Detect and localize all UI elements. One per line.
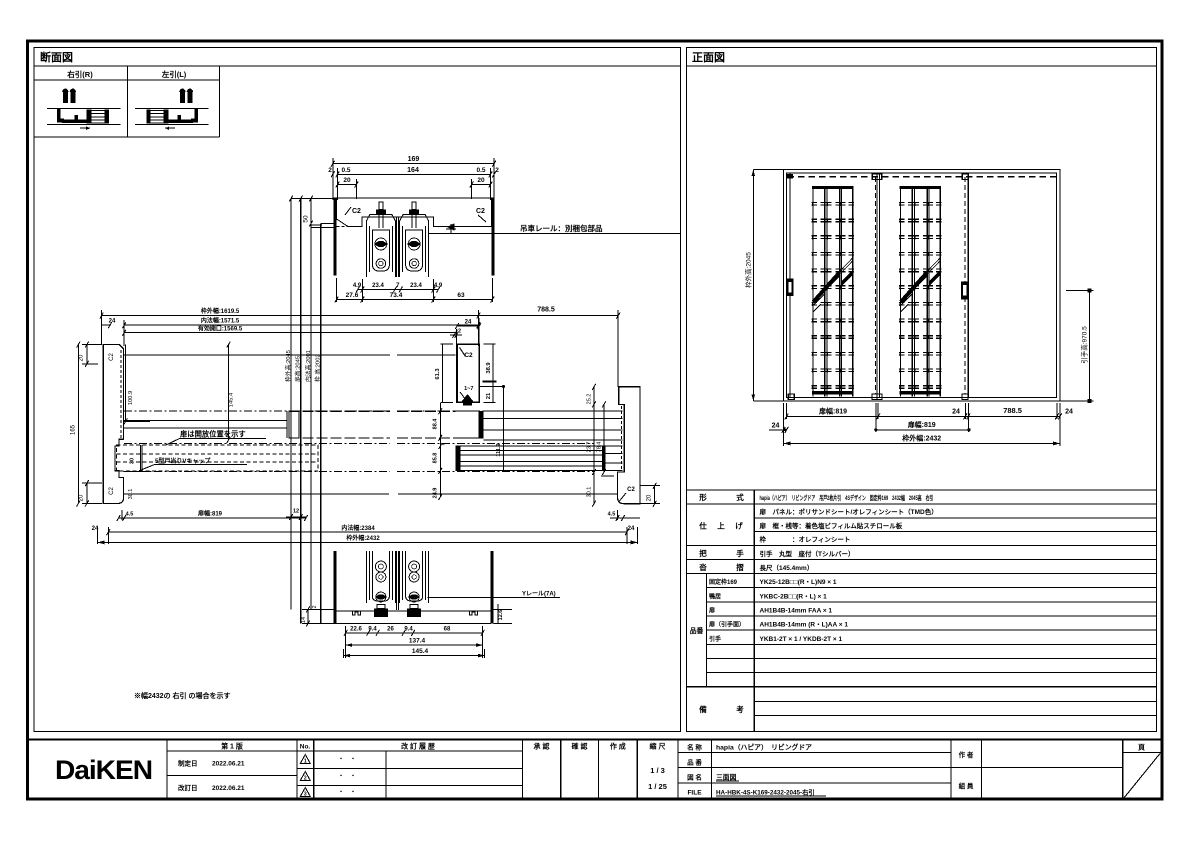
svg-text:品 番: 品 番 <box>687 758 702 767</box>
svg-text:改訂日: 改訂日 <box>178 783 198 792</box>
svg-text:考: 考 <box>736 704 744 714</box>
svg-text:24: 24 <box>1065 409 1073 416</box>
svg-text:27.6: 27.6 <box>346 292 359 299</box>
svg-text:23.4: 23.4 <box>410 283 422 289</box>
svg-text:枠外幅:2432: 枠外幅:2432 <box>346 534 380 542</box>
svg-text:20: 20 <box>79 354 85 361</box>
svg-text:げ: げ <box>735 521 743 531</box>
svg-text:承 認: 承 認 <box>534 742 550 751</box>
svg-text:作 者: 作 者 <box>959 750 974 759</box>
svg-text:788.5: 788.5 <box>1003 406 1022 415</box>
svg-text:30.1: 30.1 <box>587 487 593 498</box>
svg-text:hapia（ハピア） リビングドア: hapia（ハピア） リビングドア <box>716 743 812 752</box>
svg-text:12.6: 12.6 <box>498 610 504 621</box>
svg-text:右引(R): 右引(R) <box>66 69 93 79</box>
svg-text:左引(L): 左引(L) <box>161 69 187 79</box>
svg-text:手: 手 <box>736 548 744 558</box>
svg-text:枠 高:2002: 枠 高:2002 <box>314 354 322 382</box>
svg-text:扉幅:819: 扉幅:819 <box>197 510 223 518</box>
svg-text:0.5: 0.5 <box>341 167 350 174</box>
svg-text:沓: 沓 <box>698 562 707 572</box>
svg-text:内法幅:2384: 内法幅:2384 <box>341 524 375 532</box>
svg-text:2: 2 <box>304 776 307 782</box>
svg-text:3: 3 <box>304 792 307 798</box>
svg-text:HA-HBK-4S-K169-2432-2045-右引: HA-HBK-4S-K169-2432-2045-右引 <box>716 788 815 797</box>
svg-text:20: 20 <box>477 177 485 184</box>
svg-text:DaiKEN: DaiKEN <box>55 755 152 785</box>
svg-text:改 訂 履 歴: 改 訂 履 歴 <box>401 742 435 751</box>
svg-text:2: 2 <box>495 167 499 174</box>
svg-text:4.5: 4.5 <box>608 512 616 518</box>
svg-text:組 員: 組 員 <box>959 781 974 790</box>
svg-text:20: 20 <box>343 177 351 184</box>
svg-text:引手: 引手 <box>709 635 721 643</box>
svg-text:22.6: 22.6 <box>350 627 362 633</box>
svg-text:24: 24 <box>109 319 116 325</box>
svg-text:枠 ：オレフィンシート: 枠 ：オレフィンシート <box>760 535 851 544</box>
svg-text:制定日: 制定日 <box>178 759 198 768</box>
svg-text:111.9: 111.9 <box>496 443 502 456</box>
svg-text:78.4: 78.4 <box>597 442 603 453</box>
svg-text:23.7: 23.7 <box>587 442 593 453</box>
svg-text:73.4: 73.4 <box>390 292 403 299</box>
svg-text:内法幅:1571.5: 内法幅:1571.5 <box>201 317 240 325</box>
svg-text:24: 24 <box>628 526 635 532</box>
svg-text:164: 164 <box>407 167 419 174</box>
svg-text:C2: C2 <box>476 208 485 215</box>
svg-text:名 称: 名 称 <box>687 743 702 752</box>
svg-text:26: 26 <box>387 627 394 633</box>
svg-text:14: 14 <box>301 617 307 623</box>
svg-text:4.5: 4.5 <box>126 512 134 518</box>
svg-text:図 名: 図 名 <box>687 773 702 782</box>
svg-text:正面図: 正面図 <box>692 50 725 64</box>
svg-text:24.9: 24.9 <box>433 488 439 499</box>
svg-text:枠外幅:2432: 枠外幅:2432 <box>902 433 941 442</box>
svg-text:63: 63 <box>457 292 465 299</box>
svg-text:扉は開放位置を示す: 扉は開放位置を示す <box>180 429 246 438</box>
svg-text:145.4: 145.4 <box>412 648 429 655</box>
svg-text:85.8: 85.8 <box>433 453 439 464</box>
svg-text:4.9: 4.9 <box>434 283 443 289</box>
svg-text:作 成: 作 成 <box>610 742 626 751</box>
svg-text:9.4: 9.4 <box>404 627 413 633</box>
svg-text:AH1B4B-14mm (R・L)AA × 1: AH1B4B-14mm (R・L)AA × 1 <box>760 622 849 629</box>
svg-text:断面図: 断面図 <box>40 50 73 64</box>
svg-text:1 / 25: 1 / 25 <box>648 782 667 791</box>
svg-text:21: 21 <box>486 392 492 399</box>
svg-text:枠外幅:1619.5: 枠外幅:1619.5 <box>201 307 240 315</box>
svg-text:165: 165 <box>71 424 77 435</box>
svg-text:扉幅:819: 扉幅:819 <box>818 407 847 416</box>
svg-text:C2: C2 <box>352 208 361 215</box>
svg-text:長尺（145.4mm）: 長尺（145.4mm） <box>760 563 814 572</box>
svg-text:2: 2 <box>458 329 461 335</box>
svg-text:・ ・: ・ ・ <box>338 774 356 780</box>
svg-text:38.9: 38.9 <box>486 362 492 374</box>
svg-text:品番: 品番 <box>690 626 704 635</box>
svg-text:Yレール(7A): Yレール(7A) <box>522 591 556 598</box>
svg-text:12: 12 <box>293 509 299 515</box>
svg-text:形: 形 <box>699 492 707 502</box>
svg-text:縮 尺: 縮 尺 <box>650 742 666 751</box>
svg-text:把: 把 <box>699 548 707 558</box>
svg-text:上: 上 <box>717 521 725 531</box>
svg-text:枠外高:2045: 枠外高:2045 <box>744 252 753 288</box>
svg-text:2022.06.21: 2022.06.21 <box>212 785 245 792</box>
svg-text:・ ・: ・ ・ <box>338 790 356 796</box>
svg-text:扉高:2045: 扉高:2045 <box>294 356 302 382</box>
svg-text:1~7: 1~7 <box>464 386 473 392</box>
svg-text:扉 パネル：ポリサンドシート/オレフィンシート（TMD色）: 扉 パネル：ポリサンドシート/オレフィンシート（TMD色） <box>760 507 938 516</box>
svg-text:2: 2 <box>312 605 318 608</box>
svg-text:YK25-12B□□(R・L)N9 × 1: YK25-12B□□(R・L)N9 × 1 <box>760 579 837 586</box>
svg-text:2: 2 <box>328 167 332 174</box>
svg-text:24: 24 <box>772 422 780 429</box>
svg-text:1: 1 <box>304 759 307 765</box>
svg-text:扉（引手面）: 扉（引手面） <box>708 621 745 629</box>
svg-text:137.4: 137.4 <box>409 638 426 645</box>
svg-text:50: 50 <box>303 215 310 223</box>
svg-text:・ ・: ・ ・ <box>338 757 356 763</box>
svg-text:確 認: 確 認 <box>572 742 588 751</box>
svg-text:24: 24 <box>952 409 960 416</box>
svg-text:YKB1-2T × 1 / YKDB-2T × 1: YKB1-2T × 1 / YKDB-2T × 1 <box>760 636 843 643</box>
svg-text:4.9: 4.9 <box>353 283 362 289</box>
svg-text:C2: C2 <box>627 487 635 493</box>
svg-text:摺: 摺 <box>736 562 744 572</box>
svg-text:hapia（ハピア） リビングドア 吊戸2枚片引 4Sデザイ: hapia（ハピア） リビングドア 吊戸2枚片引 4Sデザイン 固定枠169 2… <box>760 493 934 502</box>
svg-text:C2: C2 <box>109 487 115 495</box>
svg-text:23.4: 23.4 <box>372 283 384 289</box>
svg-text:仕: 仕 <box>698 521 707 531</box>
svg-text:68: 68 <box>444 627 451 633</box>
svg-text:C2: C2 <box>109 353 115 361</box>
svg-text:FILE: FILE <box>687 790 702 797</box>
svg-text:20: 20 <box>647 494 653 501</box>
svg-text:169: 169 <box>408 156 420 163</box>
svg-text:AH1B4B-14mm FAA × 1: AH1B4B-14mm FAA × 1 <box>760 608 833 615</box>
svg-text:三面図: 三面図 <box>716 773 737 782</box>
svg-text:扉 框・桟等：着色塩ビフィルム貼スチロール板: 扉 框・桟等：着色塩ビフィルム貼スチロール板 <box>760 521 903 530</box>
svg-text:頁: 頁 <box>1138 744 1145 752</box>
svg-text:固定枠169: 固定枠169 <box>709 578 738 586</box>
svg-text:145.4: 145.4 <box>229 392 235 407</box>
svg-text:扉幅:819: 扉幅:819 <box>907 420 936 429</box>
svg-text:No.: No. <box>300 744 311 751</box>
svg-text:引手高:970.5: 引手高:970.5 <box>1080 326 1089 364</box>
svg-text:20: 20 <box>79 494 85 501</box>
svg-text:9.4: 9.4 <box>368 627 377 633</box>
svg-text:100.9: 100.9 <box>128 391 134 406</box>
svg-text:25.2: 25.2 <box>587 394 593 405</box>
svg-text:24: 24 <box>465 320 472 326</box>
svg-text:吊車レール：別梱包部品: 吊車レール：別梱包部品 <box>520 223 603 233</box>
svg-text:扉: 扉 <box>708 607 715 615</box>
svg-text:88.4: 88.4 <box>433 418 439 430</box>
svg-text:2022.06.21: 2022.06.21 <box>212 761 245 768</box>
svg-text:式: 式 <box>736 492 744 502</box>
svg-text:0.5: 0.5 <box>476 167 485 174</box>
svg-text:有効開口:1569.5: 有効開口:1569.5 <box>198 325 243 333</box>
svg-text:引手 丸型 座付（Tシルバー）: 引手 丸型 座付（Tシルバー） <box>760 549 855 558</box>
svg-text:YKBC-2B□□(R・L) × 1: YKBC-2B□□(R・L) × 1 <box>760 593 828 600</box>
svg-text:鴨居: 鴨居 <box>709 592 721 600</box>
svg-text:第 1 版: 第 1 版 <box>221 742 243 751</box>
svg-text:※幅2432の 右引 の場合を示す: ※幅2432の 右引 の場合を示す <box>134 691 230 700</box>
svg-text:788.5: 788.5 <box>537 307 555 314</box>
svg-text:1 / 3: 1 / 3 <box>650 766 665 775</box>
svg-text:C2: C2 <box>464 352 473 359</box>
svg-text:30: 30 <box>130 458 136 464</box>
svg-text:61.3: 61.3 <box>435 368 441 380</box>
svg-text:備: 備 <box>699 704 707 714</box>
